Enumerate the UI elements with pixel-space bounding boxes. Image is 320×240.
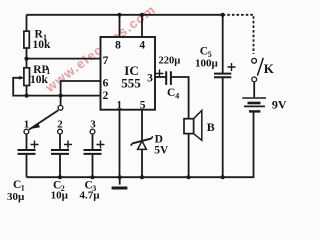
svg-text:10k: 10k <box>30 74 49 86</box>
svg-text:2: 2 <box>103 90 109 102</box>
svg-text:10k: 10k <box>33 39 52 51</box>
svg-text:30µ: 30µ <box>7 191 25 203</box>
svg-text:5V: 5V <box>154 144 169 156</box>
svg-text:100µ: 100µ <box>195 58 219 70</box>
svg-text:4: 4 <box>139 39 145 51</box>
svg-text:1: 1 <box>116 100 122 112</box>
svg-text:7: 7 <box>103 55 109 67</box>
svg-text:C: C <box>167 87 175 99</box>
svg-text:6: 6 <box>103 78 109 90</box>
svg-text:3: 3 <box>90 119 96 131</box>
svg-text:4.7µ: 4.7µ <box>80 189 101 201</box>
svg-text:1: 1 <box>24 119 30 131</box>
svg-text:B: B <box>207 120 215 134</box>
svg-text:220µ: 220µ <box>159 56 181 67</box>
svg-text:5: 5 <box>140 100 146 112</box>
svg-text:555: 555 <box>121 76 141 91</box>
svg-text:8: 8 <box>115 39 121 51</box>
svg-text:4: 4 <box>175 91 179 100</box>
svg-text:3: 3 <box>147 72 153 84</box>
svg-text:9V: 9V <box>272 98 287 112</box>
svg-text:10µ: 10µ <box>51 189 69 201</box>
svg-text:K: K <box>264 61 275 76</box>
svg-text:2: 2 <box>57 119 63 131</box>
